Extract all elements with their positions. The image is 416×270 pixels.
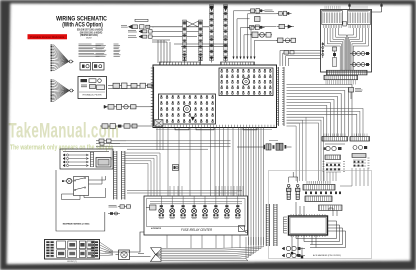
relay K6 (213, 205, 219, 219)
connector triple R1 (350, 52, 370, 56)
center vertical bundle 2 (287, 117, 307, 181)
switch circle (62, 178, 72, 183)
front connector symbol (116, 250, 151, 260)
wire band lower staircase (287, 109, 364, 182)
center vertical bundle 1 (211, 127, 247, 196)
fuse relay center label (181, 228, 213, 232)
svg-text:(With ACS Option): (With ACS Option) (62, 22, 103, 29)
sensor E6 (277, 24, 294, 28)
solenoid SOL1 (287, 184, 291, 199)
crossover wires (187, 21, 199, 27)
label E1 (265, 9, 273, 11)
mainframe connector grid (45, 240, 100, 264)
connector chain P2 (199, 20, 203, 63)
block top comb left (160, 62, 201, 65)
strip top ticks (111, 151, 113, 159)
small connector pair 2 (108, 212, 120, 215)
switch loop wires (62, 176, 106, 200)
sensor S3 (128, 35, 152, 38)
wires E to block (233, 11, 277, 60)
connector row mid3 (100, 124, 153, 129)
mid small component (173, 165, 179, 171)
block interior component (333, 47, 337, 67)
band label connector (349, 88, 363, 100)
wire band upper staircase (287, 85, 353, 138)
relay K7 (224, 205, 230, 219)
controller left pin comb (284, 217, 287, 233)
svg-text:The watermark only appears on: The watermark only appears on the sample (10, 144, 114, 152)
top stub T1 (348, 3, 350, 10)
pin grid A (219, 68, 273, 96)
wires into fuse box top (170, 186, 243, 196)
wire connectors W1 (96, 139, 126, 145)
chain P4 arrowhead (224, 6, 228, 11)
tailgate work lights box (60, 149, 113, 169)
relay K8 (235, 205, 241, 219)
grid B triangle (191, 117, 195, 121)
watermark subtitle (10, 144, 114, 152)
relay K5 (202, 205, 208, 219)
grid A big pin (243, 78, 250, 85)
mainframe enclosure box (56, 170, 105, 231)
block bottom comb (156, 125, 274, 130)
left connector strips (114, 151, 125, 200)
fan harness C1 (51, 44, 70, 61)
block interior chain (322, 42, 324, 58)
fuse relay center box (144, 196, 248, 235)
pin grid B (159, 94, 216, 124)
acs inner top box (319, 205, 343, 211)
right pin column (277, 67, 285, 126)
svg-text:HYDRAULIC FILTER: HYDRAULIC FILTER (83, 94, 102, 97)
connector chain P4 (224, 5, 228, 63)
chain bottom arrows (183, 57, 226, 61)
block corner component (155, 120, 164, 127)
component E2 (255, 17, 261, 22)
solenoid SOL2 (296, 184, 300, 199)
connector chain P3 (210, 5, 214, 63)
harness strip 2 (324, 75, 358, 79)
block bottom drop wires (157, 127, 201, 196)
hydraulic filter box (78, 77, 107, 99)
fan harness C4 (51, 89, 75, 102)
connector E5 (277, 11, 292, 15)
svg-text:ACS HARNESS (P/N 6702353): ACS HARNESS (P/N 6702353) (313, 254, 341, 257)
fuse box bottom wires (167, 235, 240, 248)
bottom fan connector (151, 237, 264, 262)
connector E7 (276, 38, 296, 43)
svg-text:MAINFRAME HARNESS (LH SIDE): MAINFRAME HARNESS (LH SIDE) (63, 222, 90, 225)
connector on wires (284, 51, 294, 55)
bracket label (135, 19, 148, 21)
staircase to fuse box (125, 153, 160, 196)
mid horizontal feeders (127, 191, 242, 194)
svg-text:Printable Version Click Here: Printable Version Click Here (30, 35, 65, 39)
block top comb right (221, 62, 255, 65)
cluster B symbols (352, 146, 370, 169)
ACS controller connector block (321, 10, 372, 73)
strip fan ticks (326, 80, 356, 85)
connector E4 (250, 32, 272, 38)
cluster A symbols (323, 144, 346, 172)
connector E1 (249, 9, 265, 14)
connector chain P1 (183, 20, 187, 63)
engine harness connector row (237, 141, 292, 151)
block mid component (343, 22, 347, 27)
acs relay pair 2 (282, 253, 305, 257)
harness comb HA (322, 134, 348, 142)
acs controller (289, 214, 328, 237)
wires to right pin column (280, 51, 321, 67)
title WIRING SCHEMATIC (56, 16, 107, 23)
switch box (72, 177, 89, 196)
harness strip 1 (327, 70, 368, 75)
svg-text:FUSE /RELAY CENTER: FUSE /RELAY CENTER (181, 228, 213, 232)
battery connector (138, 253, 144, 255)
red badge Printable Version Click Here (28, 34, 68, 39)
connector E3 (248, 25, 265, 30)
acs relay pair 1 (282, 246, 305, 250)
chain P3 arrowhead (210, 6, 214, 11)
solenoid wires (289, 172, 298, 183)
fuse box corner part (239, 226, 248, 233)
grid fan wires (100, 242, 114, 256)
svg-text:ALTERNATOR: ALTERNATOR (151, 227, 162, 230)
block interior funnel wires (325, 28, 369, 70)
long bus wires (96, 141, 231, 149)
subtitle With ACS Option (62, 22, 103, 29)
fuel sender S1 (121, 25, 154, 29)
fan lead-in wires (105, 232, 144, 252)
relay K3 (180, 205, 186, 219)
connector row mid2 (104, 104, 153, 109)
fuse box internal bus (150, 196, 242, 207)
grid B big pin (183, 105, 190, 112)
controller loop wires (291, 202, 346, 258)
connector row mid1 (108, 83, 153, 89)
fan hatch lines (156, 249, 162, 260)
sensor wires (152, 27, 209, 63)
block top label ticks (325, 6, 367, 9)
model lines (77, 28, 103, 31)
relay K4 (191, 205, 197, 219)
block bottom connector stubs (175, 127, 257, 130)
svg-text:TakeManual.com: TakeManual.com (9, 118, 120, 142)
block left comb (151, 67, 154, 126)
svg-text:6902917: 6902917 (86, 37, 92, 39)
connector triple R2 (350, 63, 370, 67)
fan harness C2 (51, 56, 74, 71)
cluster C (303, 181, 341, 202)
acs input comb strips (266, 204, 277, 246)
left harness labels (79, 43, 92, 45)
sensor S2 (128, 30, 152, 33)
svg-text:FRONT (?): FRONT (?) (67, 261, 77, 263)
alternator lead (146, 205, 156, 210)
instrument panel block (153, 65, 277, 128)
fuse box sublabel (151, 227, 162, 230)
fan harness C3 (51, 79, 70, 91)
watermark TakeManual.com (9, 118, 120, 142)
small connectors mid (109, 205, 132, 208)
center vertical bundle trunk (249, 127, 264, 245)
relay K2 (169, 205, 175, 219)
chain tie wires (174, 44, 228, 47)
wires cluster A to C (324, 168, 368, 186)
harness comb HB (350, 134, 370, 142)
accessory box pair (80, 63, 104, 71)
relay K1 (159, 205, 165, 219)
acs harness enclosure (269, 171, 372, 259)
top stub T2 (372, 3, 383, 12)
